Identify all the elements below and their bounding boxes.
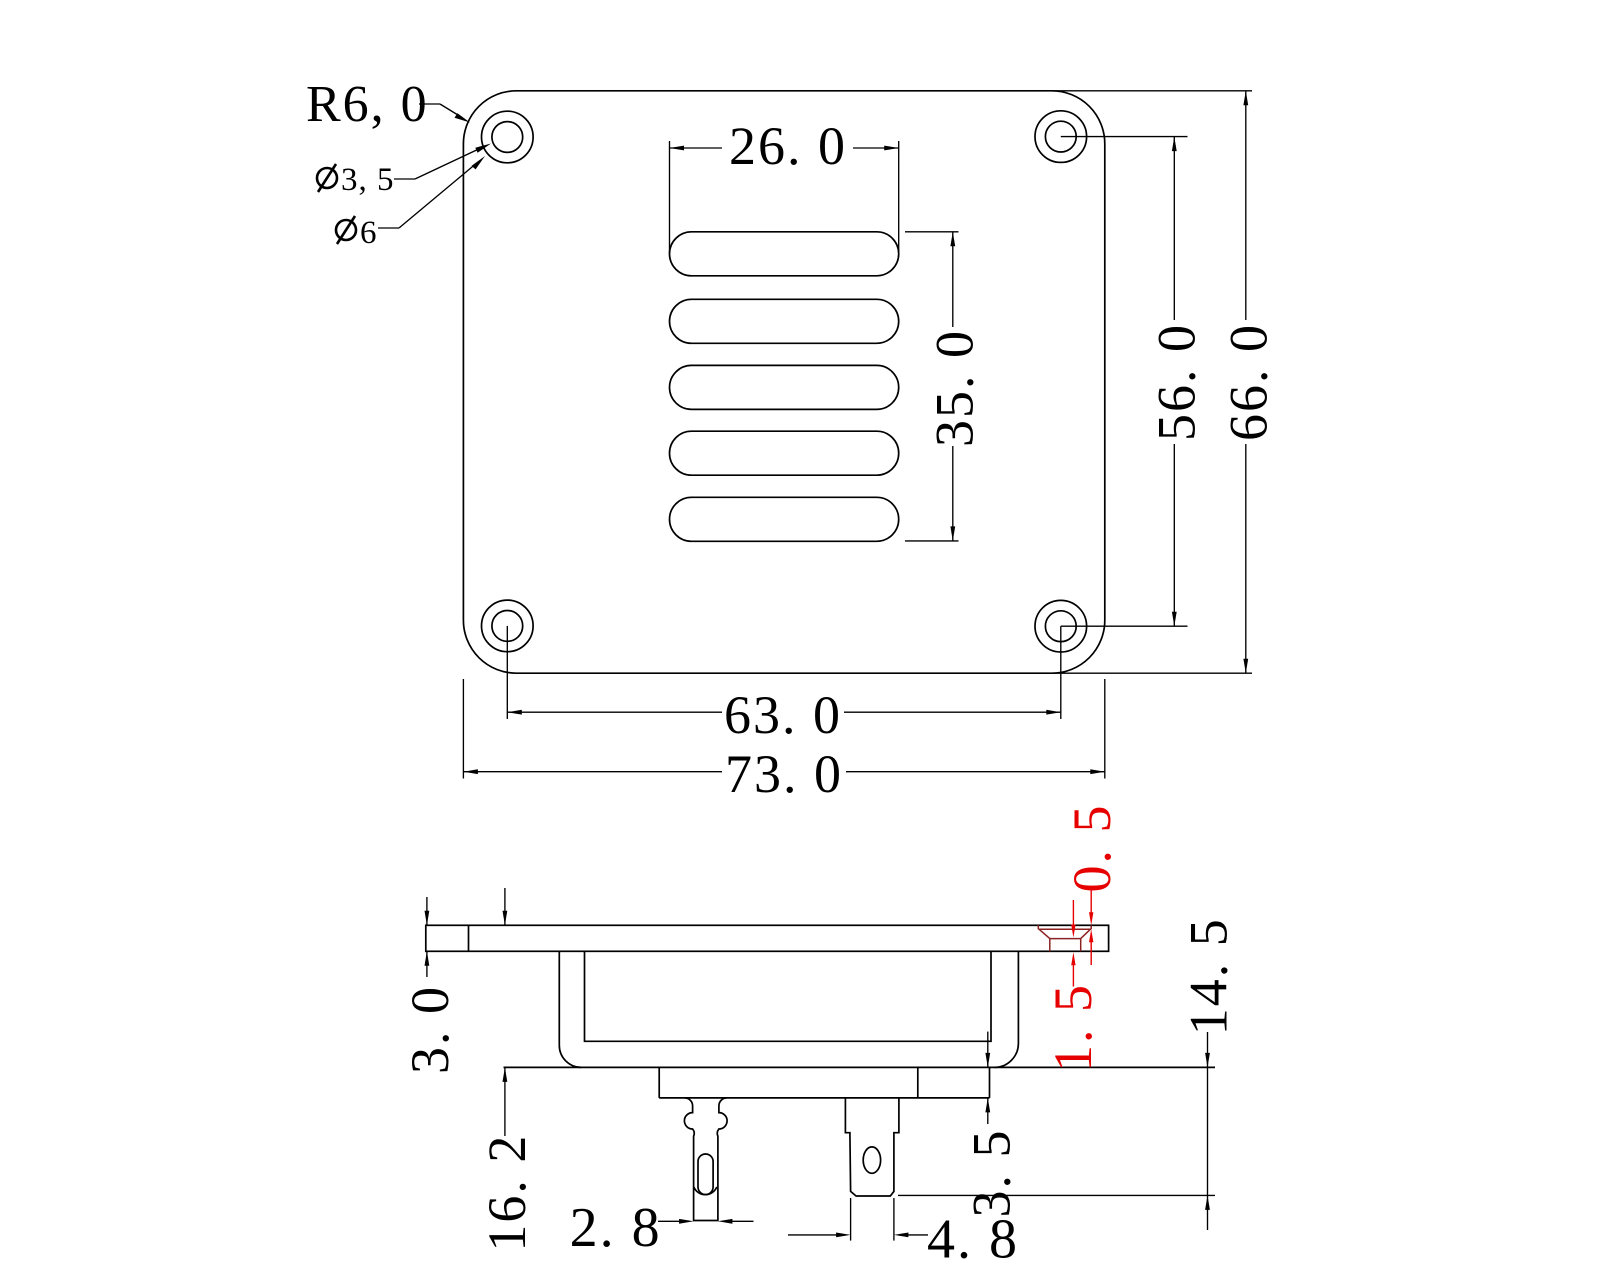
mounting hole top-left inner circle (492, 122, 523, 153)
side view flange outline (426, 925, 1109, 951)
dim 63.0 arrow right (1046, 710, 1061, 715)
svg-text:16. 2: 16. 2 (477, 1134, 537, 1252)
dim 66.0 arrow bottom (1243, 659, 1248, 674)
label dia 3,5 leader (394, 147, 483, 179)
dim 16.2 dimension line lower (504, 1067, 506, 1136)
red dim 1.5 dimension line lower (1072, 964, 1074, 987)
red dim 0.5 arrow top (1089, 912, 1093, 925)
countersink cone right (1081, 929, 1091, 938)
countersink hole top (1050, 938, 1081, 940)
terminal 1 outline (684, 1098, 727, 1221)
dim 63.0 dimension line (507, 711, 722, 713)
label dia 3,5 leader arrow (475, 144, 491, 153)
dim 35.0 arrow bottom (950, 526, 955, 541)
dim 14.5 arrow bottom (1205, 1195, 1210, 1210)
dim 56.0 extension line top (1061, 136, 1188, 138)
svg-text:2. 8: 2. 8 (570, 1197, 662, 1259)
dim 14.5 arrow top (1205, 1053, 1210, 1068)
dim 73.0 extension line right (1104, 679, 1106, 779)
red dim 0.5 dimension line upper (1090, 889, 1092, 913)
dim 26.0 arrow right (884, 146, 899, 151)
countersink recess left wall (1037, 925, 1039, 929)
dim 3.0 dimension line lower (426, 951, 428, 977)
dim 63.0 extension line right (1060, 626, 1062, 719)
mounting hole top-right outer circle (1035, 111, 1087, 163)
svg-text:3. 0: 3. 0 (400, 985, 460, 1074)
dim 73.0 arrow left (463, 769, 478, 774)
dim 63.0 extension line left (506, 626, 508, 719)
dim 66.0 extension line top (1052, 90, 1252, 92)
dim 3.5 arrow top (985, 1053, 990, 1068)
dim 4.8 arrow left (836, 1233, 851, 1238)
mounting hole bottom-right inner circle (1045, 611, 1076, 642)
label dia 6 text (336, 216, 356, 244)
dim 3.0 arrow bottom (425, 951, 430, 966)
vent slot 1 (670, 232, 899, 276)
terminal seat division line (917, 1067, 919, 1098)
countersink cone left (1039, 929, 1050, 938)
countersink recess bottom (1038, 928, 1091, 930)
dim 26.0 arrow left (670, 146, 685, 151)
svg-text:6: 6 (360, 215, 378, 251)
dim 66.0 dimension line (1245, 91, 1247, 320)
vent slot 2 (670, 299, 899, 343)
dim 2.8 dimension line right (731, 1220, 754, 1222)
countersink hole left wall (1049, 939, 1051, 952)
plate outline (463, 91, 1104, 673)
dim 3.5 arrow bottom (985, 1098, 990, 1113)
label dia 3,5 text (317, 164, 337, 192)
label dia 6 leader (378, 162, 478, 228)
terminal seat left edge (658, 1067, 660, 1098)
dim 56.0 arrow top (1172, 137, 1177, 152)
dim 66.0 extension line bottom (1052, 672, 1252, 674)
dim 4.8 arrow right (894, 1233, 909, 1238)
terminal seat right edge (989, 1067, 991, 1098)
dim 4.8 extension line right (893, 1198, 895, 1241)
dim 16.2 arrow top (503, 911, 508, 926)
terminal 1 lower arc (694, 1187, 717, 1195)
dim 2.8 arrow left (679, 1219, 694, 1224)
terminal seat bottom (659, 1097, 989, 1099)
svg-text:R6, 0: R6, 0 (306, 76, 429, 133)
vent slot 4 (670, 431, 899, 475)
label R6,0 leader (419, 104, 462, 118)
dim 66.0 arrow top (1243, 91, 1248, 106)
dim 4.8 dimension line left (788, 1234, 837, 1236)
dim 16.2 dimension line upper (504, 888, 506, 925)
side view tub bottom line with extensions (504, 1066, 1216, 1068)
side view tub outer right wall (995, 951, 1019, 1067)
red dim 1.5 arrow top (1071, 925, 1075, 938)
label R6,0 leader arrow (455, 113, 471, 122)
dim 14.5 dimension line (1207, 1032, 1209, 1230)
svg-text:0. 5: 0. 5 (1062, 804, 1122, 893)
red dim 0.5 arrow bottom (1089, 929, 1093, 942)
red dim 1.5 arrow bottom (1071, 952, 1075, 965)
dim 35.0 extension line bottom (905, 540, 959, 542)
svg-text:56. 0: 56. 0 (1147, 323, 1207, 441)
dim 73.0 dimension line (463, 771, 722, 773)
dim 35.0 extension line top (905, 231, 959, 233)
vent slot 3 (670, 365, 899, 409)
dim 16.2 arrow bottom (503, 1067, 508, 1082)
dim 73.0 extension line left (462, 679, 464, 779)
svg-text:3. 5: 3. 5 (962, 1129, 1022, 1218)
svg-text:26. 0: 26. 0 (729, 116, 847, 176)
svg-text:63. 0: 63. 0 (724, 685, 842, 745)
dim 2.8 arrow right (718, 1219, 733, 1224)
terminal 1 slot hole (698, 1154, 713, 1195)
svg-text:35. 0: 35. 0 (924, 329, 984, 447)
terminal 2 bottom extension line (898, 1194, 1215, 1196)
side view tub outer left wall (559, 951, 581, 1067)
dim 2.8 dimension line left (658, 1220, 680, 1222)
label dia 6 leader arrow (472, 156, 486, 169)
dim 26.0 dimension line (670, 147, 723, 149)
side view flange step line (468, 925, 470, 951)
mounting hole top-right inner circle (1045, 121, 1076, 152)
terminal 2 oval hole (863, 1147, 880, 1173)
dim 4.8 extension line left (850, 1198, 852, 1241)
svg-text:4. 8: 4. 8 (927, 1209, 1019, 1271)
countersink hole right wall (1080, 939, 1082, 952)
svg-text:1. 5: 1. 5 (1043, 983, 1103, 1072)
dim 26.0 extension line left (669, 141, 671, 254)
mounting hole bottom-right outer circle (1035, 600, 1087, 652)
dim 73.0 arrow right (1090, 769, 1105, 774)
dim 56.0 arrow bottom (1172, 612, 1177, 627)
vent slot 5 (670, 497, 899, 541)
side view tub inner wall (585, 951, 992, 1041)
terminal 2 outline (845, 1098, 899, 1196)
svg-text:66. 0: 66. 0 (1219, 323, 1279, 441)
mounting hole top-left outer circle (482, 111, 534, 163)
dim 3.0 dimension line upper (426, 897, 428, 925)
mounting hole bottom-left inner circle (492, 611, 523, 642)
svg-text:73. 0: 73. 0 (725, 744, 843, 804)
dim 3.0 arrow top (425, 911, 430, 926)
dim 35.0 arrow top (950, 232, 955, 247)
dim 56.0 dimension line (1173, 137, 1175, 320)
dim 35.0 dimension line (952, 232, 954, 327)
red dim 1.5 dimension line upper (1072, 900, 1074, 926)
mounting hole bottom-left outer circle (482, 600, 534, 652)
dim 3.5 dimension line lower (987, 1098, 989, 1124)
dim 26.0 extension line right (898, 141, 900, 254)
svg-text:3, 5: 3, 5 (341, 162, 395, 198)
svg-text:14. 5: 14. 5 (1179, 917, 1239, 1035)
countersink recess right wall (1090, 925, 1092, 929)
red dim 0.5 dimension line lower (1090, 941, 1092, 965)
dim 63.0 arrow left (507, 710, 522, 715)
dim 56.0 extension line bottom (1061, 625, 1188, 627)
dim 3.5 dimension line upper (987, 1032, 989, 1068)
dim 4.8 dimension line right (907, 1234, 928, 1236)
